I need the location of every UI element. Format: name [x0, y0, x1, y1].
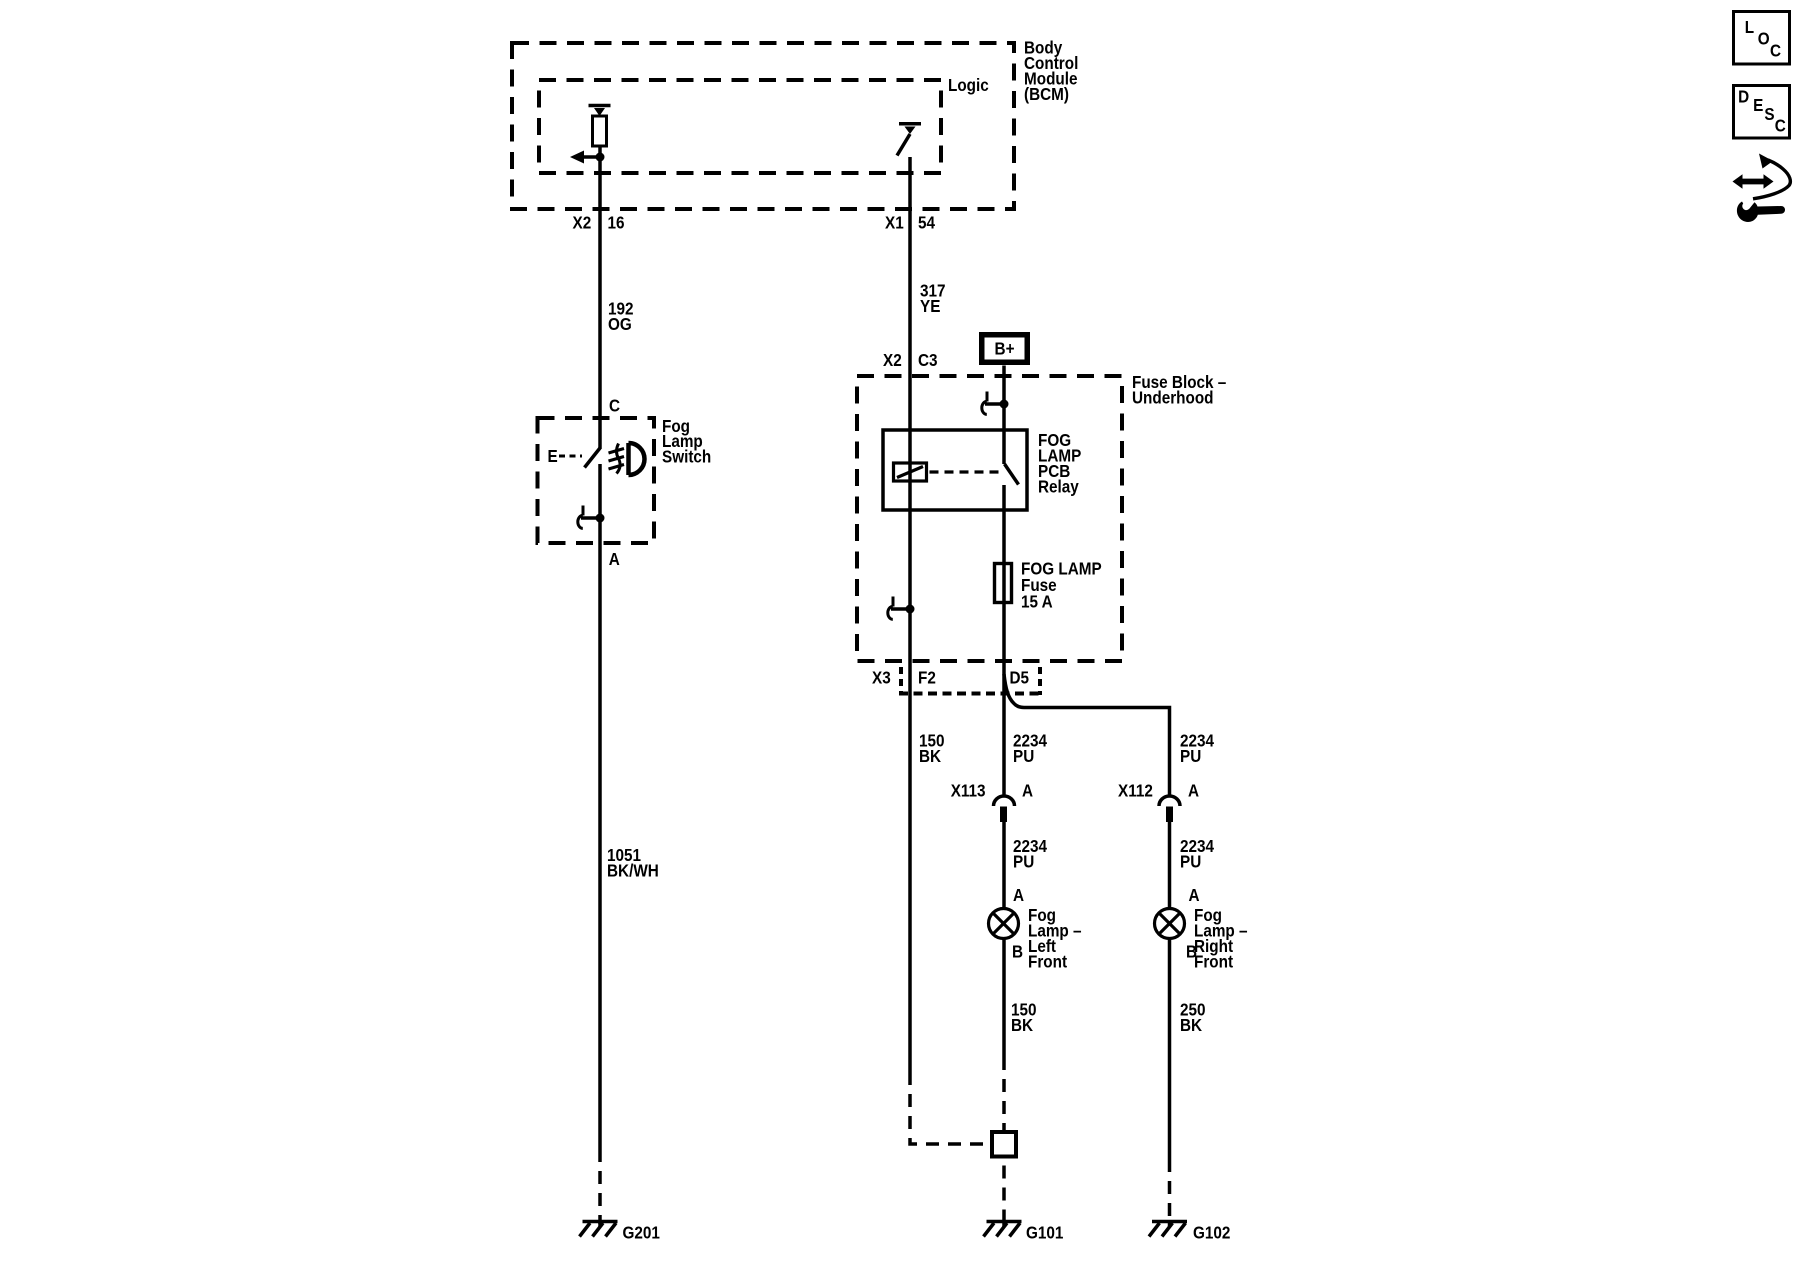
svg-text:A: A [1022, 780, 1033, 800]
wire X112 to right fog lamp [1168, 822, 1172, 909]
svg-text:X3: X3 [872, 667, 891, 687]
svg-text:E: E [548, 446, 558, 466]
wire X113 to left fog lamp [1002, 822, 1006, 909]
svg-text:Underhood: Underhood [1132, 387, 1214, 407]
svg-text:B: B [1186, 941, 1197, 961]
fog lamp left label [1028, 905, 1082, 972]
svg-text:PU: PU [1180, 851, 1201, 871]
wire relay to fuse [1002, 510, 1006, 676]
wire label 2234 PU (right upper) [1180, 730, 1215, 766]
svg-text:PU: PU [1180, 746, 1201, 766]
svg-text:Front: Front [1028, 951, 1067, 971]
wire label 2234 PU (left lower) [1013, 836, 1048, 872]
pin label C (fog lamp switch) [609, 395, 620, 415]
svg-text:PU: PU [1013, 746, 1034, 766]
svg-text:F2: F2 [918, 667, 936, 687]
svg-text:G201: G201 [623, 1223, 660, 1243]
B+ hook junction [982, 392, 1009, 415]
svg-text:X2: X2 [883, 350, 902, 370]
BCM internal switch blade [897, 134, 910, 156]
dashed wire to G102 [1168, 1172, 1172, 1224]
svg-text:BK: BK [919, 746, 941, 766]
dashed wire into splice [1002, 1070, 1006, 1132]
battery feed B+ [982, 335, 1028, 363]
svg-text:(BCM): (BCM) [1024, 84, 1069, 104]
BCM driver output bar (left) [589, 106, 611, 117]
svg-text:C: C [609, 395, 620, 415]
wire label 2234 PU (right lower) [1180, 836, 1215, 872]
svg-text:C3: C3 [918, 350, 938, 370]
wire label 2234 PU (left upper) [1013, 730, 1048, 766]
pin label X2 C3 [883, 350, 938, 370]
fog lamp switch label [662, 416, 711, 467]
svg-text:D5: D5 [1010, 667, 1030, 687]
BCM driver output bar (right) [899, 124, 921, 134]
inline connector X113 [951, 780, 1033, 822]
dashed wire splice to G101 [1002, 1157, 1006, 1225]
dashed wire from F2 to splice [910, 1085, 991, 1144]
svg-text:BK/WH: BK/WH [607, 860, 659, 880]
fuse label [1021, 558, 1102, 611]
svg-text:O: O [1758, 28, 1770, 48]
wire label 192 OG [608, 298, 634, 334]
svg-text:PU: PU [1013, 851, 1034, 871]
relay actuating dashed link [930, 470, 1001, 473]
svg-text:YE: YE [920, 296, 940, 316]
pin label A (fog lamp switch) [609, 549, 620, 569]
fog lamp right label [1194, 905, 1248, 972]
svg-text:D: D [1738, 86, 1749, 106]
pin label X1 54 [885, 212, 936, 232]
svg-text:L: L [1745, 17, 1754, 37]
svg-text:A: A [1188, 780, 1199, 800]
LOC icon box [1734, 12, 1790, 65]
pin label B (left lamp) [1012, 941, 1023, 961]
BCM label [1024, 37, 1078, 104]
BCM outer dashed box [512, 43, 1014, 209]
fog lamp right front [1155, 909, 1185, 939]
wire 317 YE from BCM X1-54 to fuse block [908, 157, 912, 430]
wire 317 YE inside fuse block (relay coil to F2) [908, 430, 912, 1085]
E terminal label and dashes [548, 446, 583, 466]
wire from B+ into relay [1002, 366, 1006, 431]
fog lamp switch dashed box [538, 418, 655, 543]
wire from D5 down to left fog lamp [1002, 676, 1006, 796]
pin label B (right lamp) [1186, 941, 1197, 961]
svg-text:X2: X2 [573, 212, 592, 232]
ground label G101 [1026, 1223, 1063, 1243]
wire 250 BK below right lamp [1168, 939, 1172, 1173]
svg-text:S: S [1764, 104, 1774, 124]
svg-text:C: C [1775, 115, 1786, 135]
fog lamp relay box [883, 430, 1027, 510]
svg-text:X1: X1 [885, 212, 904, 232]
svg-text:X113: X113 [951, 780, 986, 800]
svg-text:Switch: Switch [662, 446, 711, 466]
svg-text:B: B [1012, 941, 1023, 961]
fuse block label [1132, 372, 1226, 408]
pin label X2 16 [573, 212, 625, 232]
fog lamp left front [989, 909, 1019, 939]
svg-text:Relay: Relay [1038, 476, 1079, 496]
svg-text:C: C [1770, 40, 1781, 60]
inline connector X112 [1118, 780, 1199, 822]
DESC icon box [1734, 86, 1790, 139]
svg-text:G101: G101 [1026, 1223, 1063, 1243]
fog lamp fuse 15A [995, 564, 1012, 603]
relay contacts [1004, 430, 1019, 510]
svg-text:54: 54 [918, 212, 936, 232]
switch illumination hook junction [578, 506, 605, 529]
wire label 150 BK (relay coil ground) [919, 730, 945, 766]
pin labels X3 F2 D5 [872, 667, 1029, 687]
svg-text:Front: Front [1194, 951, 1233, 971]
wire label 317 YE [920, 280, 946, 316]
fuse block underhood dashed box [857, 376, 1122, 661]
svg-text:16: 16 [608, 212, 625, 232]
wire label 1051 BK/WH [607, 845, 659, 881]
pin label A (right lamp) [1189, 885, 1200, 905]
resistor (BCM fog lamp switch signal pull-up) [593, 116, 607, 146]
ground G201 [580, 1222, 618, 1237]
relay coil [894, 463, 927, 481]
svg-text:G102: G102 [1193, 1223, 1230, 1243]
svg-text:E: E [1753, 95, 1763, 115]
wire 192 OG from BCM X2-16 to fog lamp switch [598, 157, 602, 449]
svg-text:Logic: Logic [948, 75, 989, 95]
ground G101 [984, 1222, 1022, 1237]
Logic label [948, 75, 989, 95]
coil ground hook junction [888, 597, 915, 620]
svg-text:A: A [609, 549, 620, 569]
ground label G201 [623, 1223, 660, 1243]
tools icon [1733, 154, 1791, 222]
branch wire 2234 PU to right fog lamp [1004, 674, 1170, 796]
wire label 150 BK [1011, 999, 1037, 1035]
ground G102 [1149, 1222, 1187, 1237]
fog lamp icon [609, 443, 645, 475]
svg-text:A: A [1013, 885, 1024, 905]
svg-text:OG: OG [608, 314, 632, 334]
switch blade [585, 448, 601, 468]
relay label [1038, 430, 1081, 497]
svg-text:B+: B+ [995, 338, 1015, 358]
wire below switch blade [598, 464, 602, 1162]
fuse block bottom connector dotted box [899, 667, 1042, 695]
splice box on G101 wire [992, 1132, 1016, 1157]
signal arrow to BCM logic [570, 146, 605, 164]
svg-text:15 A: 15 A [1021, 591, 1053, 611]
ground label G102 [1193, 1223, 1230, 1243]
pin label A (left lamp) [1013, 885, 1024, 905]
Logic inner dashed box [539, 80, 941, 173]
svg-text:BK: BK [1180, 1015, 1202, 1035]
wire label 250 BK [1180, 999, 1206, 1035]
svg-text:BK: BK [1011, 1015, 1033, 1035]
svg-text:A: A [1189, 885, 1200, 905]
svg-text:X112: X112 [1118, 780, 1153, 800]
wire 150 BK below left lamp [1002, 939, 1006, 1071]
dashed wire to G201 [598, 1162, 602, 1224]
